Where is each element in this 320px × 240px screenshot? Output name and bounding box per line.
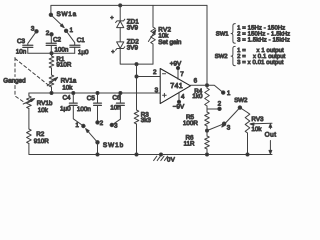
node junction RV1a/pin3 net	[50, 92, 53, 95]
SW1 legend brace	[231, 24, 235, 44]
node junction ground symbol/rail	[160, 153, 163, 156]
switch SW1a arm with arrowhead to position 1	[51, 15, 63, 26]
node junction SW1b/ground rail	[96, 153, 99, 156]
wire SW1b pole to ground rail	[97, 142, 99, 154]
svg-text:1k0: 1k0	[192, 93, 203, 100]
capacitor C3 plates	[23, 44, 33, 46]
wire SW1a contact 1 to C1 top	[66, 31, 75, 45]
node -9V supply dot	[177, 100, 180, 103]
potentiometer RV1b	[28, 93, 30, 96]
switch SW2 arm through contact 3	[223, 108, 240, 126]
switch SW1b contact 2 dot	[96, 121, 99, 124]
node junction RV3/ground rail	[246, 153, 249, 156]
node +9V supply dot	[176, 66, 179, 69]
resistor R6	[205, 136, 210, 149]
svg-text:C2: C2	[53, 36, 62, 43]
wire ZD2 cathode down and right to RV2 bottom	[120, 49, 153, 65]
svg-text:2 = 150Hz - 1.5kHz: 2 = 150Hz - 1.5kHz	[237, 31, 290, 38]
node junction output/bus	[206, 84, 209, 87]
pin 4 supply lead	[178, 92, 180, 101]
svg-text:2: 2	[153, 69, 157, 76]
RV1a wiper arrow	[47, 78, 56, 85]
switch SW2 contact 2 dot	[218, 107, 221, 110]
svg-text:3V9: 3V9	[127, 44, 139, 51]
wire R3 bottom to ground rail	[136, 124, 138, 155]
RV1b wiper arrow	[23, 99, 33, 104]
svg-text:2: 2	[46, 30, 50, 37]
svg-text:SW2: SW2	[234, 97, 248, 104]
switch SW1a pole dot	[49, 13, 52, 16]
svg-text:C4: C4	[63, 94, 72, 101]
switch SW1b contact 1 dot	[82, 124, 85, 127]
wire SW2 pole to RV3 top	[240, 108, 248, 113]
node junction C5/pin3 net	[96, 92, 99, 95]
svg-text:1: 1	[70, 27, 74, 34]
ganged link dashed lines RV1a-RV1b	[15, 58, 49, 104]
svg-text:10n: 10n	[16, 48, 27, 55]
capacitor C5 plates	[94, 102, 102, 104]
svg-text:10n: 10n	[110, 105, 121, 112]
node junction C2/R1	[50, 52, 53, 55]
resistor R5	[205, 112, 210, 126]
wire RV3 bottom to ground rail	[247, 133, 249, 155]
capacitor C4 plates	[69, 102, 77, 104]
svg-text:C6: C6	[112, 95, 121, 102]
svg-text:3 = 1.5kHz - 15kHz: 3 = 1.5kHz - 15kHz	[237, 37, 290, 44]
switch SW2 contact 1 dot	[222, 91, 225, 94]
node junction R5/R6 to SW2 contact 3	[206, 129, 209, 132]
svg-text:3: 3	[155, 87, 159, 94]
svg-text:741: 741	[170, 81, 183, 90]
svg-text:1µ0: 1µ0	[60, 106, 71, 113]
node junction pin2 wire / R3 column	[135, 75, 138, 78]
wire ZD1 anode to ZD2 anode	[119, 28, 121, 42]
svg-text:1µ0: 1µ0	[78, 49, 89, 56]
svg-text:100R: 100R	[183, 120, 199, 127]
wire C3 bottom lead	[27, 47, 29, 53]
svg-text:2: 2	[100, 120, 104, 127]
node junction top rail / zener branch	[119, 4, 122, 7]
svg-text:1: 1	[75, 122, 79, 129]
wire non-inverting input net (pin 3 horizontal)	[29, 92, 160, 94]
wire R1 to RV1a	[51, 68, 53, 75]
node junction C4/pin3 net	[72, 92, 75, 95]
resistor R1	[49, 56, 54, 68]
op-amp U1 741 triangle	[160, 69, 190, 104]
switch SW1a contact 3 dot	[35, 30, 38, 33]
capacitor C4 top lead	[72, 93, 74, 103]
output terminal upper arrow	[269, 126, 271, 129]
RV2 wiper arrow	[148, 32, 154, 42]
resistor R2	[27, 129, 32, 144]
svg-text:−9V: −9V	[173, 103, 185, 110]
SW2 legend brace	[231, 46, 235, 65]
wire R6 bottom to ground rail	[206, 149, 208, 155]
svg-text:+9V: +9V	[170, 61, 182, 68]
output terminal lower arrow	[269, 141, 271, 152]
svg-text:R2: R2	[36, 131, 45, 138]
wire capacitor bottoms common (C3-C2-C1) to R1 top	[28, 52, 75, 54]
wire C4 bottom lead to SW1b contact 1	[73, 105, 83, 126]
wire top rail from SW1a pole to right bus corner	[51, 5, 207, 14]
svg-text:+: +	[110, 15, 114, 21]
resistor R4	[205, 88, 210, 106]
svg-text:3 = x 0.01 output: 3 = x 0.01 output	[237, 59, 284, 66]
RV3 wiper arrow and wire to output	[252, 122, 273, 125]
ground symbol 0V hatching	[154, 156, 168, 160]
pin 7 supply lead	[177, 68, 179, 79]
svg-text:6: 6	[194, 78, 198, 85]
node junction zener-RV2 bus / R3 column	[135, 63, 138, 66]
svg-text:1 = x 1 output: 1 = x 1 output	[237, 47, 284, 54]
svg-text:910R: 910R	[34, 138, 50, 145]
svg-text:3: 3	[227, 125, 231, 132]
svg-text:SW1b: SW1b	[103, 142, 124, 149]
capacitor C6 top lead	[119, 93, 121, 103]
switch SW1a contact 1 dot	[64, 29, 67, 32]
svg-text:10k: 10k	[62, 84, 73, 91]
svg-text:10k: 10k	[251, 126, 262, 133]
wire junction to SW2 contact 3	[207, 124, 224, 131]
svg-text:4: 4	[181, 94, 185, 101]
switch SW1a contact 2 dot	[50, 33, 53, 36]
switch SW1b arm with arrowhead to position 1	[88, 131, 98, 143]
potentiometer RV1a	[49, 75, 54, 87]
wire C5 bottom lead to SW1b contact 2	[97, 105, 99, 122]
svg-text:10k: 10k	[38, 107, 49, 114]
svg-text:11R: 11R	[184, 140, 196, 147]
wire R3 column top (pin2 net vertical)	[136, 64, 138, 110]
svg-text:1 = 15Hz - 150Hz: 1 = 15Hz - 150Hz	[237, 25, 285, 32]
resistor R3	[134, 110, 139, 124]
wire R4 to R5	[206, 106, 208, 112]
capacitor C6 plates	[117, 102, 125, 104]
capacitor C2 plates	[46, 42, 56, 44]
svg-text:100n: 100n	[77, 106, 92, 113]
node junction C6/pin3 net	[119, 92, 122, 95]
svg-text:C5: C5	[87, 95, 96, 102]
wire C6 bottom lead to SW1b contact 3	[112, 105, 121, 125]
potentiometer RV3	[245, 113, 250, 134]
wire RV1b to R2	[28, 109, 30, 130]
svg-text:2: 2	[218, 100, 222, 107]
capacitor C1 plates	[70, 44, 80, 46]
svg-text:7: 7	[180, 71, 184, 78]
svg-text:RV1b: RV1b	[37, 100, 53, 107]
wire right bus vertical (output bus, top rail to R4)	[206, 5, 208, 88]
svg-text:RV3: RV3	[251, 116, 264, 123]
switch SW2 pole dot	[238, 106, 241, 109]
op-amp plus sign (pin 3 non-inverting)	[163, 94, 167, 96]
svg-text:SW1: SW1	[216, 30, 229, 37]
svg-text:3: 3	[31, 25, 35, 32]
svg-text:1: 1	[227, 90, 231, 97]
svg-text:3k3: 3k3	[141, 117, 152, 124]
switch SW2 contact 3 dot	[222, 122, 225, 125]
svg-text:Out: Out	[265, 131, 277, 138]
switch SW1b contact 3 dot	[110, 123, 113, 126]
potentiometer RV2	[151, 27, 156, 44]
svg-text:2 = x 0.1 output: 2 = x 0.1 output	[237, 53, 286, 60]
svg-text:0V: 0V	[167, 157, 176, 164]
svg-text:SW2: SW2	[215, 53, 228, 60]
svg-text:+: +	[111, 50, 115, 56]
op-amp minus sign (pin 2 inverting)	[163, 73, 166, 75]
switch SW1b pole dot	[96, 141, 99, 144]
svg-text:C1: C1	[77, 37, 86, 44]
wire inverting input pin 2 horizontal	[137, 76, 161, 78]
wire SW1a contact 2 to C2 top	[50, 34, 52, 43]
svg-text:Ganged: Ganged	[3, 78, 26, 85]
wire SW1a contact 3 to C3 top	[28, 31, 37, 45]
node junction R3/ground rail	[135, 153, 138, 156]
capacitor C5 top lead	[97, 93, 99, 103]
zener diode ZD1 (cathode up)	[116, 19, 125, 22]
wire C2 bottom lead	[50, 45, 52, 53]
svg-text:SW1a: SW1a	[57, 11, 77, 18]
svg-text:100n: 100n	[54, 47, 69, 54]
wire junction to SW2 contact 2	[207, 108, 220, 110]
svg-text:3: 3	[114, 123, 118, 130]
wire R5 to R6	[206, 126, 208, 136]
wire RV1a bottom to pin3 net	[51, 87, 53, 93]
svg-text:Set gain: Set gain	[158, 39, 182, 46]
wire R2 bottom to ground rail	[28, 144, 31, 155]
wire top rail to RV2	[152, 5, 154, 27]
zener diode ZD2 (cathode down)	[117, 42, 124, 48]
svg-text:3V9: 3V9	[127, 25, 139, 32]
wire ground rail 0V	[30, 154, 272, 156]
wire C1 bottom lead	[74, 47, 76, 53]
wire top rail to ZD1	[119, 5, 121, 21]
wire output junction to SW2 contact 1	[207, 85, 223, 92]
wire op-amp output pin 6 to bus	[191, 84, 208, 86]
wire RV2 bottom lead	[152, 44, 154, 64]
svg-text:910R: 910R	[56, 62, 72, 69]
node junction R6/ground rail	[206, 153, 209, 156]
svg-text:C3: C3	[17, 38, 26, 45]
